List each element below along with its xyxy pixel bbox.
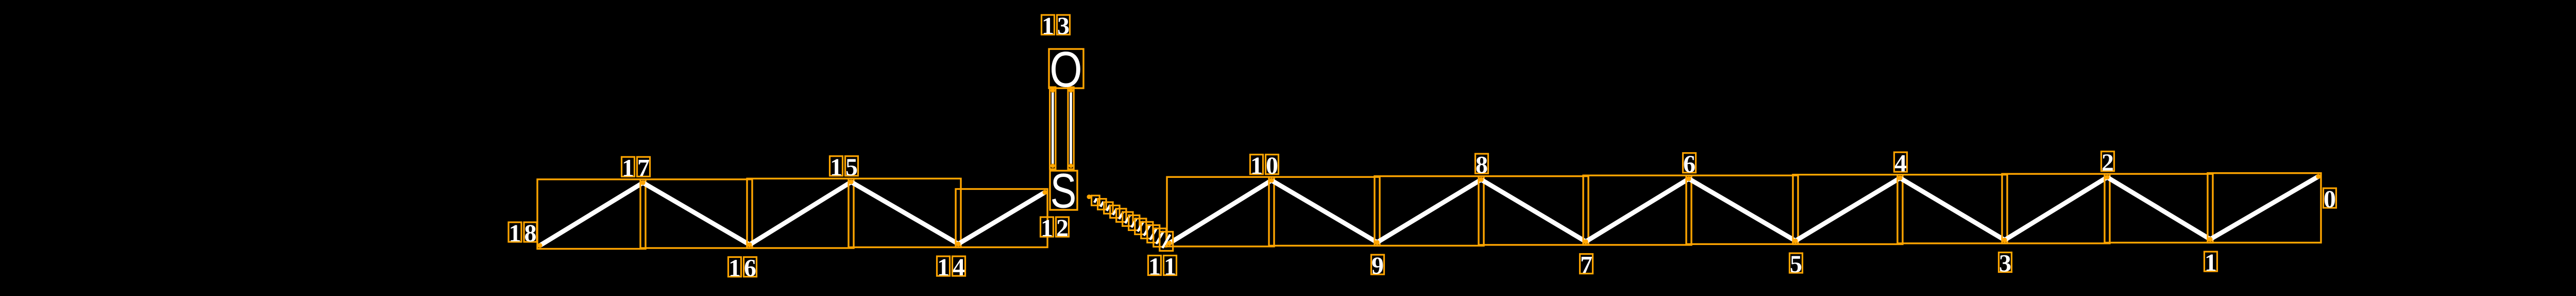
- vertex dot atom 0: [2316, 174, 2320, 179]
- svg-text:5: 5: [845, 154, 858, 181]
- bond 17-16: [640, 179, 752, 248]
- atom index label 16: [728, 255, 757, 282]
- atom index label 5: [1790, 251, 1803, 278]
- svg-text:8: 8: [524, 220, 537, 247]
- bond 11-10: [1167, 177, 1274, 246]
- bond 15-14: [849, 178, 961, 247]
- svg-text:2: 2: [1056, 215, 1069, 242]
- vertex dot atom 18: [537, 243, 542, 248]
- bond 10-9: [1269, 177, 1380, 245]
- svg-text:S: S: [1050, 163, 1077, 218]
- atom index label 18: [509, 220, 537, 247]
- vertex dot atom 10: [1269, 178, 1274, 183]
- atom index label 17: [622, 155, 650, 182]
- double bond S=O (12=13): [1050, 87, 1074, 169]
- vertex dot atom 4: [1897, 176, 1902, 180]
- bond 5-4: [1793, 175, 1903, 244]
- svg-text:3: 3: [1057, 12, 1070, 40]
- bond 9-8: [1375, 176, 1484, 246]
- svg-text:1: 1: [937, 254, 950, 281]
- vertex dot atom 6: [1686, 176, 1691, 181]
- vertex dot atom 14: [956, 241, 960, 246]
- atom S (index 12): [1050, 163, 1077, 218]
- vertex dot atom 8: [1479, 177, 1483, 182]
- bond 1-0: [2208, 173, 2321, 243]
- vertex dot atom 16: [747, 242, 752, 247]
- bond 2-1: [2105, 174, 2213, 242]
- svg-text:1: 1: [1148, 253, 1161, 281]
- svg-text:2: 2: [2102, 149, 2114, 176]
- bond 18-17: [537, 179, 646, 249]
- svg-text:1: 1: [622, 155, 634, 182]
- svg-text:3: 3: [1999, 250, 2011, 277]
- atom index label 13 (O): [1042, 12, 1070, 40]
- atom index label 8: [1476, 151, 1488, 178]
- vertex dot atom 2: [2105, 175, 2109, 179]
- svg-text:0: 0: [1266, 152, 1278, 179]
- atom index label 15: [830, 154, 858, 181]
- atom index label 3: [1999, 250, 2012, 277]
- bond 7-6: [1583, 175, 1691, 245]
- svg-text:4: 4: [953, 254, 965, 281]
- vertex dot atom 17: [640, 180, 645, 185]
- svg-text:1: 1: [509, 220, 521, 247]
- bond 14-12 (C-S, trimmed at S label): [956, 189, 1047, 248]
- vertex dot atom 11: [1167, 241, 1172, 245]
- svg-text:4: 4: [1894, 150, 1907, 177]
- svg-text:6: 6: [1683, 151, 1696, 178]
- svg-text:1: 1: [1042, 12, 1054, 40]
- atom index label 14: [937, 254, 965, 281]
- svg-text:1: 1: [2205, 249, 2217, 276]
- svg-text:0: 0: [2324, 186, 2336, 213]
- svg-text:8: 8: [1476, 151, 1488, 178]
- bond 8-7: [1479, 176, 1588, 245]
- bond 3-2: [2002, 174, 2110, 243]
- hash wedge bond 12-11 (S-C, dashed stereo bond): [1087, 194, 1173, 251]
- atom index label 12 (S): [1041, 215, 1069, 242]
- bond 16-15: [747, 178, 854, 248]
- atom index label 10: [1250, 152, 1279, 179]
- svg-text:1: 1: [1041, 215, 1053, 242]
- svg-text:1: 1: [728, 255, 741, 282]
- atom index label 2: [2102, 149, 2114, 176]
- vertex dot atom 1: [2208, 237, 2212, 241]
- bond 4-3: [1897, 175, 2007, 243]
- svg-text:1: 1: [1164, 253, 1176, 281]
- atom index label 1: [2205, 249, 2217, 276]
- svg-text:1: 1: [1250, 152, 1263, 179]
- svg-text:6: 6: [744, 255, 756, 282]
- vertex dot atom 5: [1793, 238, 1798, 243]
- atom index label 4: [1894, 150, 1907, 177]
- atom index label 9: [1371, 252, 1384, 279]
- svg-text:O: O: [1049, 41, 1082, 97]
- vertex dot atom 3: [2002, 238, 2007, 242]
- atom index label 0: [2324, 186, 2336, 213]
- bond 6-5: [1686, 175, 1798, 244]
- atom index label 6: [1683, 151, 1696, 178]
- vertex dot atom 15: [849, 179, 853, 184]
- svg-text:1: 1: [830, 154, 842, 181]
- vertex dot atom 9: [1375, 240, 1379, 244]
- svg-text:7: 7: [1580, 252, 1592, 279]
- svg-text:9: 9: [1371, 252, 1384, 279]
- svg-text:5: 5: [1790, 251, 1802, 278]
- atom index label 7: [1580, 252, 1593, 279]
- atom index label 11: [1148, 253, 1177, 281]
- atom O (index 13): [1049, 41, 1083, 97]
- vertex dot atom 7: [1583, 239, 1588, 244]
- svg-text:7: 7: [637, 155, 650, 182]
